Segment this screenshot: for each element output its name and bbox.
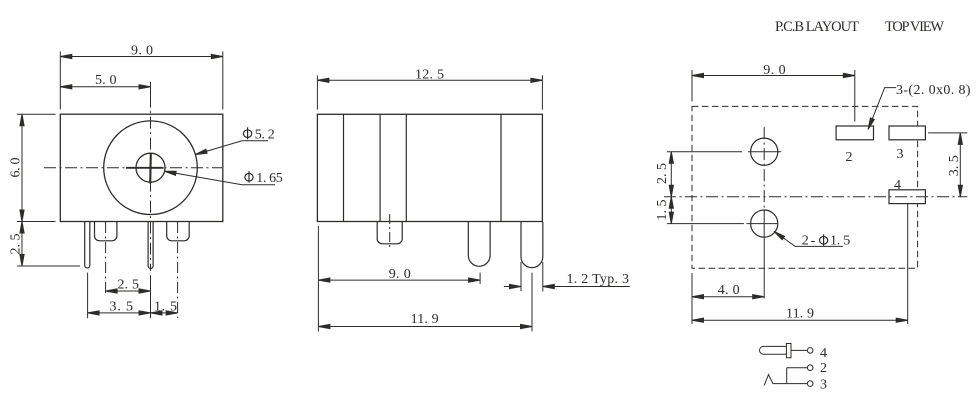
dim 11.9 line xyxy=(318,326,532,328)
dim 2.5 pcb line xyxy=(670,152,672,197)
leader 2-φ1.5 xyxy=(774,231,843,246)
svg-text:1. 65: 1. 65 xyxy=(256,171,283,186)
svg-text:1. 2 Typ. 3: 1. 2 Typ. 3 xyxy=(567,272,630,287)
pin 4 terminal circle xyxy=(807,348,813,354)
left stub centerline xyxy=(105,222,107,295)
pad 2 xyxy=(836,126,873,140)
leader φ1.65 xyxy=(165,171,276,185)
dim 6.0 line xyxy=(21,114,23,221)
svg-text:5. 0: 5. 0 xyxy=(95,73,117,88)
hole 1 crosshair horizontal xyxy=(748,151,781,153)
dim 9.0 line xyxy=(60,56,223,58)
svg-text:TOP VIEW: TOP VIEW xyxy=(885,19,944,35)
svg-text:2: 2 xyxy=(846,150,853,165)
pcb outline dashed xyxy=(692,106,918,268)
pin 4 lead line xyxy=(791,349,808,351)
dim 3.5 line xyxy=(959,133,961,197)
left stub leg front view xyxy=(95,222,117,241)
left lower extension side view xyxy=(317,226,319,332)
center pin symbol capsule xyxy=(760,346,787,354)
svg-text:3. 5: 3. 5 xyxy=(947,155,962,176)
pin 2 lead line xyxy=(787,367,808,369)
dim 9.0 pcb extension right xyxy=(854,70,856,122)
dim 5.0 extension at centerline xyxy=(150,82,152,96)
dim 9.0 pcb line xyxy=(692,75,855,77)
body inner line b xyxy=(379,114,381,221)
svg-text:1. 5: 1. 5 xyxy=(830,234,850,249)
svg-text:4: 4 xyxy=(894,178,901,193)
dim 9.0 extension left xyxy=(59,52,61,110)
horizontal centerline front view xyxy=(44,167,222,169)
pcb centerline horizontal xyxy=(664,196,967,198)
center lower extension xyxy=(150,275,152,318)
thin left pin front view xyxy=(85,222,90,268)
svg-text:P.C.B LAYOUT: P.C.B LAYOUT xyxy=(775,19,859,35)
svg-text:3. 5: 3. 5 xyxy=(110,300,134,315)
hole center extension lower xyxy=(763,210,765,299)
dim 12.5 line xyxy=(317,79,542,81)
dim text phi 1.65 xyxy=(245,171,253,182)
dim 9.0 side line xyxy=(318,279,480,281)
hole 1 circle xyxy=(751,138,778,165)
svg-text:5. 2: 5. 2 xyxy=(255,128,275,143)
svg-text:4. 0: 4. 0 xyxy=(718,283,740,298)
pad 4 center extension xyxy=(907,204,909,324)
svg-text:1. 5: 1. 5 xyxy=(154,300,177,315)
svg-text:2. 5: 2. 5 xyxy=(118,278,140,293)
leader φ5.2 xyxy=(196,141,269,155)
vertical centerline front view xyxy=(150,96,152,271)
svg-text:9. 0: 9. 0 xyxy=(389,267,411,282)
svg-text:2. 5: 2. 5 xyxy=(9,234,24,255)
svg-text:9. 0: 9. 0 xyxy=(763,63,785,78)
dim 1.2 left line xyxy=(504,286,521,288)
dim 1.5 pcb line xyxy=(670,197,672,224)
dim 2.5 extension bottom xyxy=(17,265,80,267)
body inner line a xyxy=(343,114,345,221)
dim 3.5 line xyxy=(88,312,151,314)
hole 1 horizontal extension xyxy=(667,151,742,153)
center pin symbol bar xyxy=(786,344,791,358)
svg-text:3-(2. 0x0. 8): 3-(2. 0x0. 8) xyxy=(896,83,971,98)
dim 12.5 extension right xyxy=(541,75,543,109)
hole 2 horizontal extension xyxy=(667,223,744,225)
pad 3 xyxy=(889,126,925,140)
hole centerline vertical xyxy=(763,127,765,210)
hole 2 crosshair horizontal xyxy=(746,223,777,225)
dim 5.0 line xyxy=(60,86,150,88)
pin B side view xyxy=(521,222,543,268)
svg-text:11. 9: 11. 9 xyxy=(411,312,439,327)
dim 1.2 right line xyxy=(543,286,630,288)
center cross vertical stroke xyxy=(149,153,152,184)
dim 9.0 extension right xyxy=(222,52,224,110)
dim 4.0 extension left xyxy=(691,273,693,324)
right stub leg front view xyxy=(167,222,190,241)
svg-text:11. 9: 11. 9 xyxy=(786,307,814,322)
pin A side view xyxy=(468,222,490,267)
pin 3 terminal circle xyxy=(807,381,813,387)
dim 4.0 line xyxy=(692,296,764,298)
pin hole circle φ1.65 xyxy=(136,153,165,182)
svg-text:12. 5: 12. 5 xyxy=(415,67,444,82)
dim 11.9 pcb line xyxy=(692,319,908,321)
center stub leg side view xyxy=(377,222,402,244)
dim 2.5 left line xyxy=(21,222,23,267)
dim 3.5 top extension xyxy=(928,132,967,134)
left pin lower extension xyxy=(87,273,89,319)
svg-text:1. 5: 1. 5 xyxy=(655,200,670,221)
dim text phi 5.2 xyxy=(244,127,252,139)
dim 12.5 extension left xyxy=(316,75,318,109)
switch zigzag xyxy=(764,375,807,386)
center cross horizontal stroke xyxy=(126,167,164,169)
dim 2.5 bottom line xyxy=(106,290,151,292)
svg-text:9. 0: 9. 0 xyxy=(131,43,153,58)
svg-text:3: 3 xyxy=(820,378,827,393)
barrel circle φ5.2 xyxy=(104,121,198,215)
svg-text:3: 3 xyxy=(897,147,904,162)
svg-text:6. 0: 6. 0 xyxy=(9,158,24,178)
body outline front view xyxy=(60,114,223,221)
pad 4 xyxy=(889,190,925,204)
stub centerline side view xyxy=(389,214,391,248)
hole 2 circle xyxy=(751,210,778,237)
dim 9.0 pcb extension left xyxy=(691,70,693,102)
dim 6.0 extension top xyxy=(17,113,56,115)
svg-text:4: 4 xyxy=(820,346,827,361)
pin B center extension xyxy=(531,273,533,332)
pin B right side extension xyxy=(542,262,544,292)
dim 1.5 line xyxy=(151,312,178,314)
switch branch vertical xyxy=(786,368,788,384)
leader 3-(2.0x0.8) xyxy=(868,88,896,130)
right stub centerline xyxy=(177,222,179,318)
dim 6.0/2.5 extension middle xyxy=(17,221,56,223)
svg-text:2. 5: 2. 5 xyxy=(655,163,670,184)
pin B left side extension xyxy=(520,262,522,291)
body outline side view xyxy=(317,114,542,221)
svg-text:2-: 2- xyxy=(802,234,816,249)
body inner line c xyxy=(405,114,407,221)
pin 2 terminal circle xyxy=(807,365,813,371)
center pin front view xyxy=(148,222,153,269)
body inner line d xyxy=(500,114,502,221)
svg-text:2: 2 xyxy=(820,361,827,376)
dim 9.0 side extension xyxy=(479,273,481,284)
